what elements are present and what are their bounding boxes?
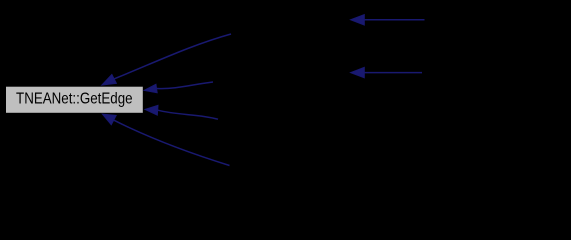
edge 4: bottom curved arrow into box bottom	[102, 114, 230, 166]
edge 3: lower-middle arrow into box right edge	[144, 105, 218, 119]
edge 5: top horizontal arrow (right column)	[350, 14, 425, 25]
edge 6: lower horizontal arrow (right column)	[350, 67, 422, 78]
svg-text:TNEANet::GetEdge: TNEANet::GetEdge	[16, 91, 133, 108]
edge 2: upper-middle arrow into box right edge	[144, 82, 214, 93]
node TNEANet::GetEdge	[6, 86, 144, 113]
edge 1: top curved arrow into box top	[101, 34, 231, 85]
